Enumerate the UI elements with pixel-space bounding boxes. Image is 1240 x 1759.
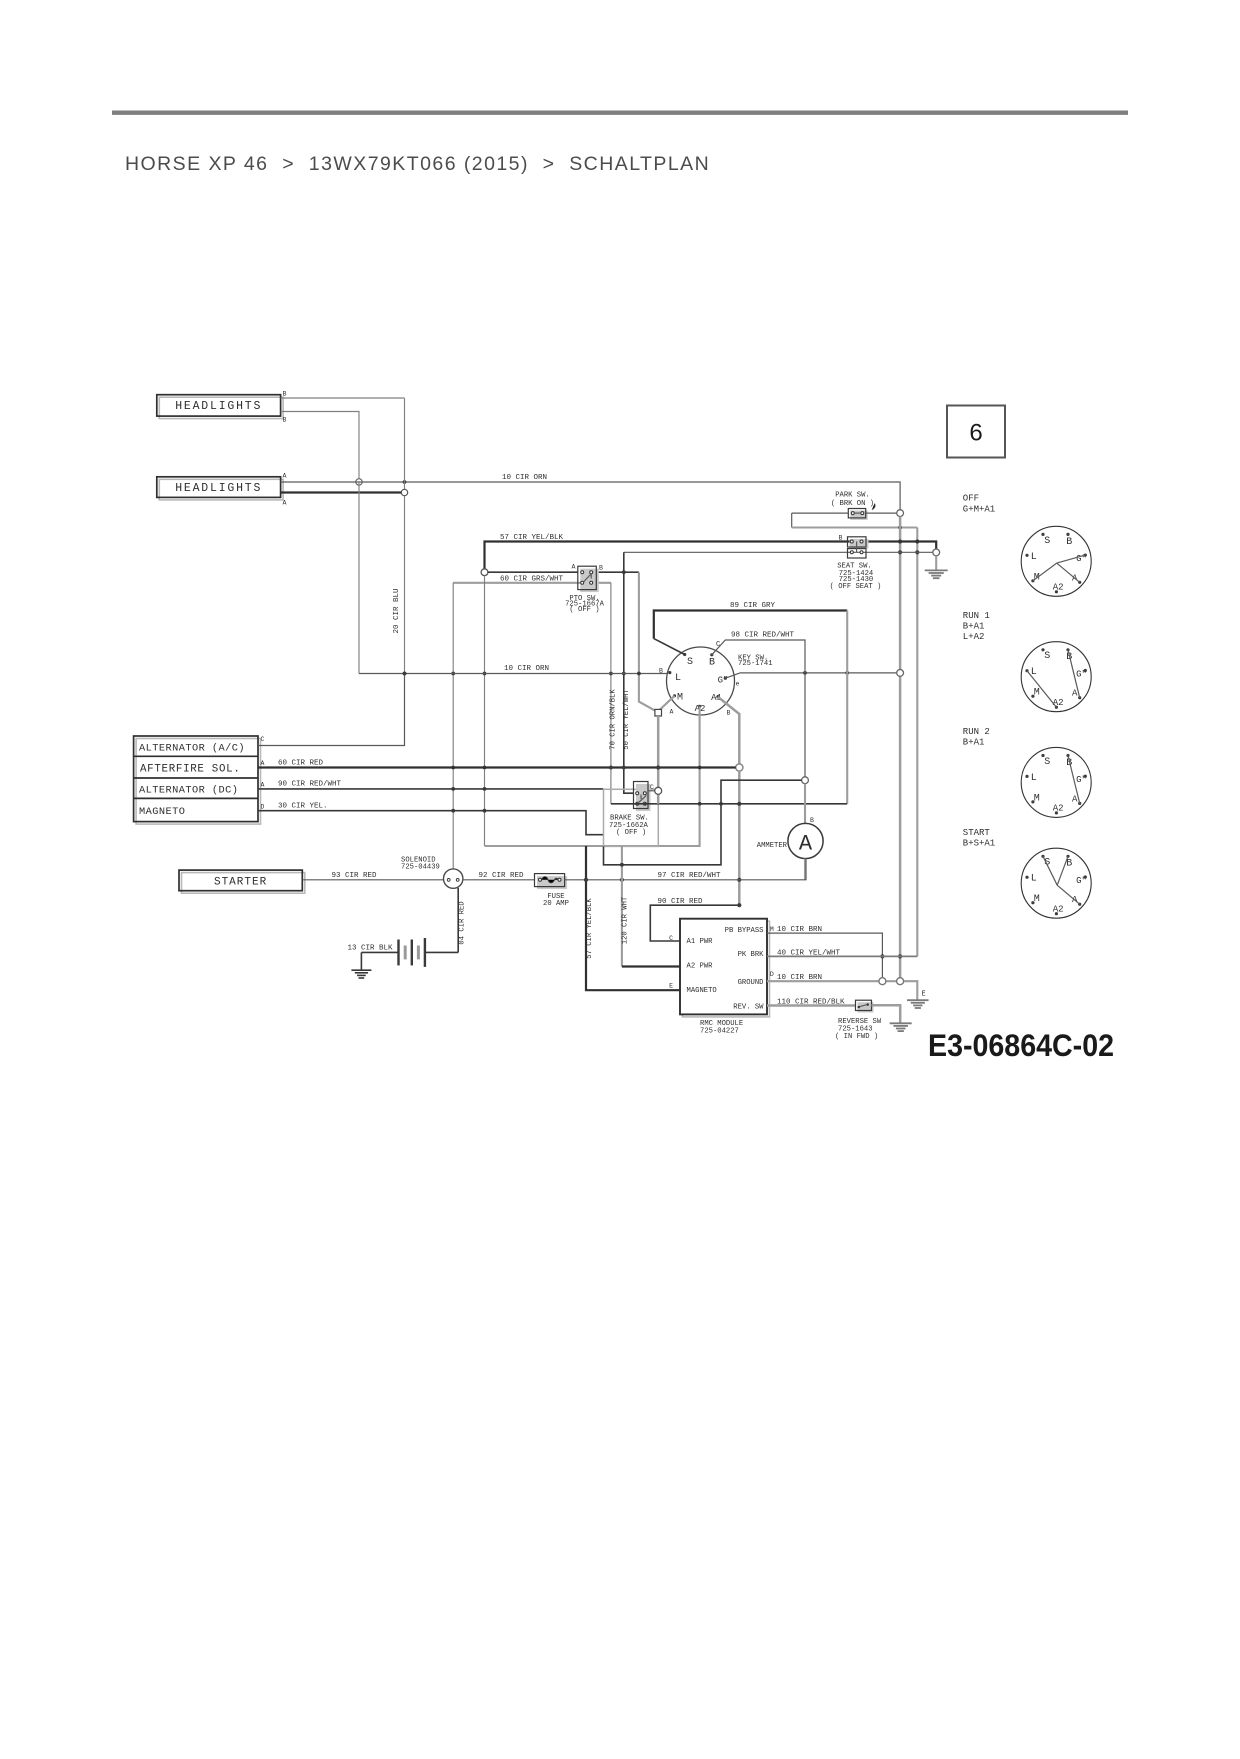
svg-text:ALTERNATOR (DC): ALTERNATOR (DC) [139, 785, 238, 797]
node connectors ground [879, 978, 904, 985]
svg-text:A2: A2 [1053, 804, 1064, 814]
svg-text:92 CIR RED: 92 CIR RED [479, 872, 525, 880]
svg-text:30 CIR YEL.: 30 CIR YEL. [278, 803, 328, 811]
svg-text:89 CIR GRY: 89 CIR GRY [730, 602, 776, 610]
svg-text:L+A2: L+A2 [963, 632, 985, 642]
headlight pin letters [283, 391, 287, 507]
breadcrumb title [125, 153, 710, 175]
headlights connector 1 [157, 395, 283, 419]
svg-text:A1 PWR: A1 PWR [687, 938, 714, 946]
svg-text:E: E [669, 983, 673, 990]
wire A2 pin drop 120 CIR WHT [485, 706, 702, 846]
svg-text:GROUND: GROUND [738, 979, 764, 987]
wire A2 PWR feed (dark) [622, 965, 680, 967]
svg-text:98 CIR RED/WHT: 98 CIR RED/WHT [731, 631, 795, 639]
node connector on 10 CIR ORN [356, 479, 362, 485]
svg-text:B: B [727, 710, 731, 717]
svg-text:A: A [1072, 794, 1078, 804]
svg-text:90 CIR RED/WHT: 90 CIR RED/WHT [278, 781, 342, 789]
svg-text:PK BRK: PK BRK [738, 951, 765, 959]
wire alternator A/C feed [258, 672, 406, 746]
wire 110 CIR RED/BLK [767, 999, 856, 1007]
svg-text:57 CIR YEL/BLK: 57 CIR YEL/BLK [586, 898, 594, 959]
svg-text:B: B [599, 565, 603, 572]
battery [399, 938, 459, 967]
wire headlight-1 pin B upper [281, 397, 405, 399]
svg-text:93 CIR RED: 93 CIR RED [332, 872, 378, 880]
wire 92 CIR RED [463, 872, 535, 880]
svg-text:OFF: OFF [963, 493, 979, 503]
wire 57 CIR YEL/BLK top [485, 534, 937, 569]
svg-text:40 CIR YEL/WHT: 40 CIR YEL/WHT [777, 949, 841, 957]
wire trunk x900 (seat/ground feed) [898, 517, 902, 978]
park switch PARK SW. (BRK ON) [831, 491, 875, 520]
wire 20 CIR BLU vertical [393, 398, 404, 674]
wire 90 CIR RED [650, 898, 741, 941]
wire 97 CIR RED/WHT [565, 859, 806, 882]
wire brake lower row [611, 803, 847, 805]
svg-text:B: B [283, 391, 287, 398]
svg-text:D: D [770, 971, 774, 978]
svg-text:M: M [1034, 793, 1040, 804]
svg-text:( OFF ): ( OFF ) [616, 829, 646, 837]
svg-text:REV. SW: REV. SW [733, 1004, 764, 1012]
svg-text:( BRK ON ): ( BRK ON ) [831, 500, 874, 508]
wire 13 CIR BLK [348, 944, 399, 952]
svg-text:M: M [1034, 688, 1040, 699]
svg-text:AMMETER: AMMETER [757, 842, 788, 850]
wire 10 CIR BRN (PB bypass) [767, 926, 885, 978]
fuse FUSE 20 AMP [535, 874, 569, 908]
node connector on 60 CIR GRS/WHT [481, 569, 488, 576]
wire solenoid riser x453 [451, 583, 455, 869]
svg-text:( OFF SEAT ): ( OFF SEAT ) [830, 583, 882, 591]
svg-text:90 CIR RED: 90 CIR RED [658, 898, 704, 906]
wire ground 10 CIR BRN [767, 974, 917, 1000]
node connector 60 CIR RED end [736, 764, 743, 771]
svg-text:B+A1: B+A1 [963, 738, 985, 748]
svg-text:S: S [1044, 651, 1050, 662]
wire 89 CIR GRY [654, 602, 847, 804]
wire 30 CIR YEL [258, 803, 604, 835]
svg-text:AFTERFIRE SOL.: AFTERFIRE SOL. [140, 763, 241, 775]
ignition position RUN 1 [963, 611, 1091, 712]
svg-text:S: S [1044, 536, 1050, 547]
svg-text:20 AMP: 20 AMP [543, 900, 569, 908]
svg-text:STARTER: STARTER [214, 876, 267, 888]
node connector seat to ground [933, 549, 940, 556]
wire trunk x917 (40 CIR YEL/WHT riser) [915, 528, 919, 957]
wire 93 CIR RED [302, 872, 443, 880]
brake switch enclosure loop [604, 780, 802, 866]
ground (seat) [925, 556, 948, 578]
brake switch BRAKE SW. 725-1662A [609, 782, 654, 837]
svg-text:110 CIR RED/BLK: 110 CIR RED/BLK [777, 999, 845, 1007]
wire 40 riser corner [0, 0, 1, 1]
svg-text:A: A [670, 709, 674, 716]
seat switch SEAT SW. [830, 534, 882, 591]
wire 04 CIR RED [458, 888, 466, 953]
wire gray return y527 [792, 526, 918, 530]
svg-text:13 CIR BLK: 13 CIR BLK [348, 944, 394, 952]
wire M pin to pad [660, 696, 675, 710]
svg-text:G+M+A1: G+M+A1 [963, 504, 995, 514]
svg-text:B: B [283, 417, 287, 424]
wire park switch drop leg [791, 513, 793, 527]
svg-text:B+S+A1: B+S+A1 [963, 839, 995, 849]
wire 57 CIR YEL/BLK lower [584, 846, 680, 990]
wire riser x484 (57 net lower) [483, 576, 487, 846]
svg-text:B: B [659, 668, 663, 675]
svg-text:M: M [770, 926, 774, 933]
svg-text:A: A [572, 564, 576, 571]
ground (reverse) [890, 1023, 912, 1031]
svg-text:A2: A2 [1053, 698, 1064, 708]
svg-text:B: B [709, 658, 715, 669]
svg-text:10 CIR ORN: 10 CIR ORN [502, 474, 547, 482]
svg-text:M: M [677, 693, 683, 704]
reverse switch REVERSE SW 725-1643 [835, 1000, 882, 1041]
wire 60 CIR GRS/WHT [488, 570, 656, 711]
key switch KEY SW. 725-1741 [659, 641, 773, 717]
svg-text:A: A [283, 473, 287, 480]
svg-text:C: C [669, 935, 673, 942]
ignition position RUN 2 [963, 727, 1091, 817]
svg-text:START: START [963, 828, 991, 838]
svg-text:60 CIR RED: 60 CIR RED [278, 759, 324, 767]
svg-text:E: E [922, 990, 926, 998]
svg-text:HORSE XP 46 > 13WX79KT066 (2: HORSE XP 46 > 13WX79KT066 (2015) > SCHAL… [125, 153, 710, 175]
RMC module 725-04227 [669, 919, 774, 1036]
wire reverse to ground [872, 1005, 901, 1023]
node connector 98 to ammeter [802, 777, 809, 784]
node connector brake C [655, 787, 662, 794]
wire park switch right leg [866, 512, 897, 514]
ground (battery) [351, 952, 371, 978]
wire seat lower row [624, 551, 933, 553]
ignition position OFF [963, 493, 1091, 596]
svg-text:10 CIR BRN: 10 CIR BRN [777, 926, 822, 934]
svg-text:B: B [810, 817, 814, 824]
wire trunk x739 [737, 771, 741, 905]
svg-text:RUN 1: RUN 1 [963, 611, 990, 621]
solenoid 725-04439 [401, 857, 463, 889]
svg-text:10 CIR ORN: 10 CIR ORN [504, 665, 549, 673]
node connector orn to trunk [897, 670, 904, 677]
svg-text:MAGNETO: MAGNETO [139, 806, 185, 818]
svg-text:G": G" [718, 676, 729, 686]
svg-text:C: C [650, 784, 654, 791]
ignition position START [963, 828, 1091, 918]
svg-text:57 CIR YEL/BLK: 57 CIR YEL/BLK [500, 534, 564, 542]
svg-text:50 CIR YEL/WHT: 50 CIR YEL/WHT [623, 689, 631, 750]
wire G pin stub [725, 673, 740, 678]
wire pad drop to brake C [648, 716, 660, 804]
wire 40 CIR YEL/WHT [767, 949, 917, 957]
svg-text:10 CIR BRN: 10 CIR BRN [777, 974, 822, 982]
wire park switch left leg [792, 512, 849, 514]
svg-text:E3-06864C-02: E3-06864C-02 [928, 1027, 1114, 1063]
svg-text:725-1741: 725-1741 [738, 660, 773, 668]
wire headlight A lower (dark) [281, 491, 402, 493]
svg-text:A: A [283, 500, 287, 507]
svg-text:A2: A2 [1053, 583, 1064, 593]
svg-text:RUN 2: RUN 2 [963, 727, 990, 737]
svg-text:HEADLIGHTS: HEADLIGHTS [175, 482, 262, 495]
svg-text:e: e [736, 681, 740, 688]
wire 10 CIR ORN upper [281, 474, 901, 509]
svg-text:( IN FWD ): ( IN FWD ) [835, 1033, 878, 1041]
svg-text:97 CIR RED/WHT: 97 CIR RED/WHT [658, 872, 722, 880]
svg-text:D: D [261, 804, 265, 811]
wire 120 CIR WHT [620, 846, 630, 967]
wire headlight-1 pin B lower [281, 412, 359, 479]
wire 10 CIR ORN lower left [359, 482, 668, 675]
svg-text:C: C [261, 736, 265, 743]
wire 50 CIR YEL/WHT [622, 552, 634, 793]
svg-text:L: L [675, 673, 681, 684]
PTO switch PTO SW. [565, 564, 605, 614]
ground (module E) [907, 990, 929, 1008]
node connector on headlight A lower [401, 489, 407, 495]
drawing number E3-06864C-02 [928, 1027, 1114, 1063]
svg-text:S: S [687, 657, 693, 668]
alternator / magneto stack [134, 736, 265, 824]
svg-text:PARK SW.: PARK SW. [835, 491, 870, 499]
svg-text:ALTERNATOR (A/C): ALTERNATOR (A/C) [139, 743, 245, 755]
svg-text:120 CIR WHT: 120 CIR WHT [622, 896, 630, 944]
svg-text:A2 PWR: A2 PWR [687, 962, 714, 970]
svg-text:6: 6 [969, 420, 982, 447]
svg-text:A: A [261, 782, 265, 789]
svg-text:L: L [1031, 552, 1037, 563]
page number box 6 [947, 406, 1005, 458]
wire 98 CIR RED/WHT [712, 631, 805, 777]
node connector park to trunk [897, 510, 904, 517]
svg-text:20 CIR BLU: 20 CIR BLU [393, 588, 401, 633]
svg-text:( OFF ): ( OFF ) [569, 606, 599, 614]
svg-text:M: M [1034, 894, 1040, 905]
svg-text:70 CIR ORN/BLK: 70 CIR ORN/BLK [610, 689, 618, 750]
svg-text:A: A [261, 760, 265, 767]
wire 70 CIR ORN/BLK [609, 583, 618, 804]
wire A1 pin drop [718, 697, 739, 764]
svg-text:MAGNETO: MAGNETO [687, 987, 717, 995]
wire 60 CIR RED [258, 759, 736, 769]
svg-text:PB BYPASS: PB BYPASS [725, 927, 764, 935]
svg-text:725-04439: 725-04439 [401, 863, 440, 871]
svg-text:725-04227: 725-04227 [700, 1028, 739, 1036]
svg-text:A: A [1072, 689, 1078, 699]
svg-text:L: L [1031, 773, 1037, 784]
svg-text:S: S [1044, 757, 1050, 768]
headlights connector 2 [157, 477, 283, 500]
header rule [112, 111, 1128, 115]
svg-text:HEADLIGHTS: HEADLIGHTS [175, 400, 262, 413]
wire gray lower 60 branch [453, 582, 611, 584]
wire 90 CIR RED/WHT [258, 781, 603, 789]
svg-text:04 CIR RED: 04 CIR RED [459, 901, 467, 944]
ammeter [757, 784, 823, 880]
svg-text:L: L [1031, 874, 1037, 885]
svg-text:B: B [1066, 537, 1072, 548]
svg-text:B+A1: B+A1 [963, 622, 985, 632]
svg-text:A: A [799, 832, 813, 857]
svg-text:A2: A2 [1053, 905, 1064, 915]
svg-text:B: B [839, 534, 843, 541]
wire 10 CIR ORN lower right [740, 671, 897, 675]
key switch pad [655, 709, 662, 716]
starter box [179, 870, 305, 893]
